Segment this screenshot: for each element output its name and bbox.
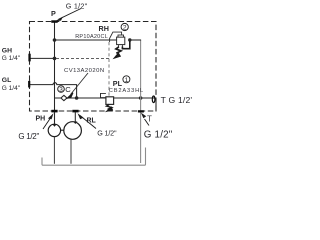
ref bubble 2 — [121, 23, 128, 30]
port GH bar — [28, 54, 30, 62]
pump circle large (low stage) — [64, 122, 82, 140]
pilot loop — [101, 93, 106, 97]
pilot flag loop — [110, 32, 122, 42]
svg-text:RP10A20CL: RP10A20CL — [75, 34, 108, 40]
bottom stubs — [118, 45, 120, 47]
svg-text:P: P — [51, 9, 56, 18]
pump flow triangle large — [73, 122, 77, 125]
port T right ellipse — [152, 96, 155, 103]
svg-text:G 1/2": G 1/2" — [18, 132, 39, 141]
node junction tank header / drain — [139, 96, 143, 100]
svg-text:1: 1 — [125, 77, 129, 84]
wire GH gauge line solid — [30, 57, 55, 59]
wire check valve / tank header line — [55, 97, 156, 99]
wire RH feed horizontal — [55, 39, 117, 41]
svg-text:G 1/4": G 1/4" — [2, 85, 21, 92]
svg-text:T: T — [147, 115, 152, 124]
port PH bar — [51, 110, 57, 113]
relief valve RH (RP10A20CL) — [110, 32, 130, 58]
enclosure dashed border — [30, 22, 157, 112]
svg-text:RH: RH — [99, 24, 109, 33]
wire border corner solid segment — [155, 99, 157, 112]
svg-text:GL: GL — [2, 77, 11, 84]
wire RL port to pump — [74, 112, 76, 123]
thick L to drain — [122, 41, 129, 49]
wire drain line gray vertical — [140, 40, 142, 163]
main pressure line P vertical — [54, 22, 56, 125]
counterbalance valve CB2A33HL — [101, 93, 114, 111]
wire suction small pump — [53, 137, 55, 164]
svg-text:RL: RL — [87, 118, 97, 125]
svg-text:2: 2 — [123, 25, 127, 32]
svg-text:G 1/2": G 1/2" — [66, 1, 88, 10]
label leader CV arrow — [71, 73, 89, 95]
node junction RH thick L — [128, 38, 131, 41]
svg-text:G 1/2": G 1/2" — [97, 129, 117, 138]
pump flow triangle small — [52, 124, 56, 127]
svg-text:CB2A33HL: CB2A33HL — [109, 88, 144, 94]
node junction GH — [53, 57, 57, 61]
port GL bar — [28, 81, 30, 88]
wire GL gauge line with hop over main line — [30, 83, 77, 97]
ref bubble 1 — [123, 76, 130, 83]
svg-text:G 1/4": G 1/4" — [2, 55, 21, 62]
node junction GL to check line — [75, 96, 79, 100]
svg-text:G 1/2": G 1/2" — [144, 130, 173, 141]
check valve CV13A2020N diamond — [61, 95, 67, 100]
leader PH arrow — [43, 117, 52, 130]
wire pilot dashed vertical (vent / CB pilot) — [108, 42, 110, 97]
tank boundary — [42, 148, 146, 166]
port RL bar — [72, 110, 78, 113]
svg-text:PH: PH — [36, 116, 46, 123]
svg-text:GH: GH — [2, 47, 12, 54]
ref bubble 3 — [58, 86, 65, 93]
wire bridge between pumps — [61, 129, 64, 131]
port T bar — [138, 110, 144, 112]
wire RH outlet to drain — [130, 39, 141, 41]
svg-text:T G 1/2": T G 1/2" — [161, 95, 192, 105]
svg-text:3: 3 — [59, 87, 63, 94]
wire PH port to pump — [54, 112, 56, 125]
spring arrow below — [107, 104, 112, 109]
spring arrow to tank — [116, 47, 121, 54]
svg-text:PL: PL — [113, 79, 123, 88]
wire suction large pump — [70, 139, 72, 164]
wire GH pilot dashed to vent — [56, 57, 109, 59]
leader RL arrow — [80, 116, 96, 129]
svg-text:CV13A2020N: CV13A2020N — [64, 68, 105, 74]
node junction P-RH — [53, 38, 57, 42]
port P bar — [51, 20, 57, 23]
pump circle small (high stage) — [48, 124, 60, 136]
svg-text:C: C — [65, 85, 71, 94]
